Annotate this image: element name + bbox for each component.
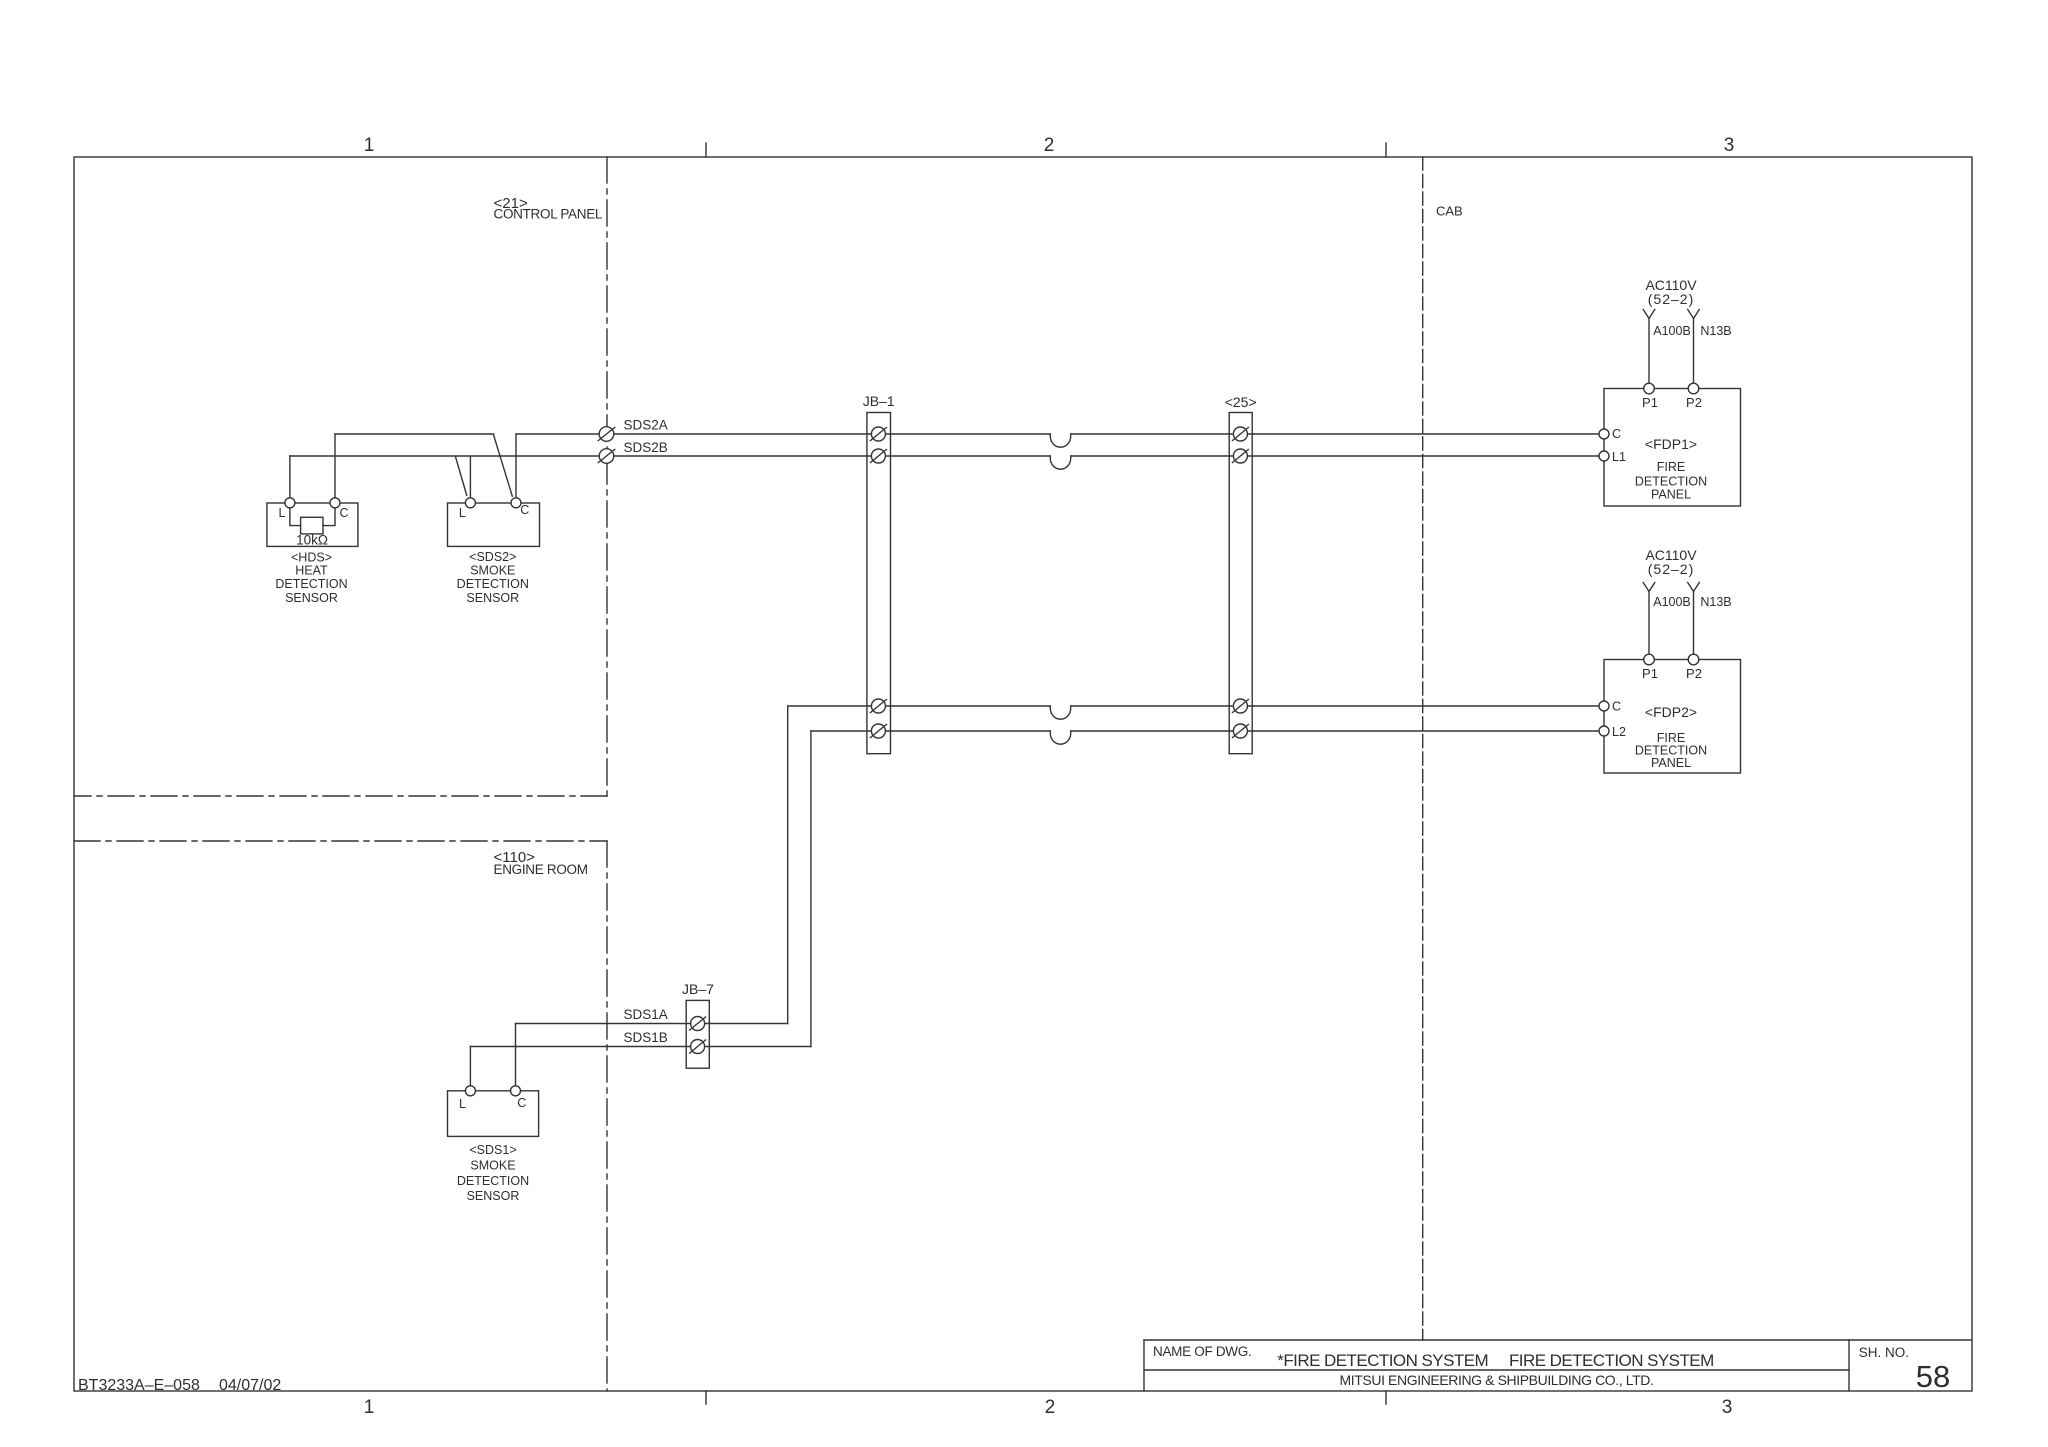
terminal SDS2A at control panel boundary — [599, 427, 614, 442]
svg-text:(52–2): (52–2) — [1648, 291, 1694, 307]
svg-text:1: 1 — [364, 135, 375, 156]
pin C FDP2 — [1599, 701, 1609, 711]
svg-text:SDS1B: SDS1B — [624, 1030, 668, 1045]
component label SDS1 — [457, 1143, 529, 1203]
component label SDS2 — [457, 550, 529, 605]
svg-text:<FDP2>: <FDP2> — [1645, 704, 1697, 720]
terminal slash JB-7 SDS1A — [689, 1017, 706, 1031]
terminal 25 lower A — [1233, 699, 1247, 713]
svg-text:1: 1 — [364, 1397, 375, 1418]
junction box 25 — [1229, 413, 1252, 754]
component label HDS — [275, 551, 347, 605]
zone label 110 engine room — [494, 849, 588, 877]
svg-text:2: 2 — [1044, 135, 1055, 156]
smoke detection sensor SDS1 box — [448, 1091, 539, 1137]
svg-text:PANEL: PANEL — [1651, 756, 1691, 770]
pin labels SDS2 — [459, 503, 529, 520]
terminal 25 lower B — [1233, 724, 1247, 738]
svg-text:(52–2): (52–2) — [1648, 561, 1694, 577]
svg-text:CAB: CAB — [1436, 204, 1463, 219]
pin L HDS — [285, 498, 295, 508]
cable loop lower A — [1050, 706, 1070, 719]
arrow V P2 FDP1 — [1688, 310, 1700, 319]
terminal slash JB-1 lower B — [870, 724, 887, 738]
svg-text:58: 58 — [1916, 1359, 1950, 1394]
pin L2 FDP2 — [1599, 726, 1609, 736]
wire SDS1B: horizontal run through JB-7 — [470, 1046, 811, 1048]
cable loop lower B — [1050, 731, 1070, 744]
svg-text:PANEL: PANEL — [1651, 488, 1691, 502]
svg-text:L: L — [279, 506, 286, 520]
terminal slash 25 lower B — [1232, 724, 1249, 738]
svg-text:10kΩ: 10kΩ — [296, 533, 328, 548]
svg-text:2: 2 — [1045, 1397, 1056, 1418]
terminal circles — [599, 427, 1247, 1054]
svg-text:P1: P1 — [1642, 395, 1658, 410]
power feed FDP1: P1 drop — [1648, 319, 1650, 384]
svg-text:<HDS>: <HDS> — [291, 551, 332, 565]
svg-text:L: L — [459, 1097, 466, 1111]
svg-text:NAME OF DWG.: NAME OF DWG. — [1153, 1344, 1251, 1359]
svg-text:L1: L1 — [1612, 450, 1626, 464]
pin L SDS2 — [465, 498, 475, 508]
terminal SDS2B at control panel boundary — [599, 449, 614, 464]
junction box JB-7 — [686, 1000, 709, 1068]
svg-text:N13B: N13B — [1700, 595, 1731, 609]
svg-text:SDS2B: SDS2B — [624, 440, 668, 455]
power feed FDP2: P1 drop — [1648, 592, 1650, 655]
sensor terminal circles — [285, 383, 1699, 1096]
terminal 25 SDS2A — [1233, 427, 1247, 441]
svg-text:DETECTION: DETECTION — [457, 577, 529, 591]
resistor 10k body — [301, 517, 323, 534]
svg-text:BT3233A–E–058: BT3233A–E–058 — [78, 1377, 200, 1394]
svg-text:DETECTION: DETECTION — [1635, 475, 1707, 489]
power labels FDP2 — [1645, 547, 1731, 609]
wire SDS2A: diagonal into SDS2 C — [494, 435, 513, 497]
wire SDS1A: vertical riser to engine room — [787, 706, 789, 1024]
svg-text:SENSOR: SENSOR — [285, 591, 338, 605]
svg-text:ENGINE ROOM: ENGINE ROOM — [494, 862, 588, 877]
heat detection sensor HDS box — [267, 503, 358, 546]
cable loop SDS2A — [1050, 434, 1070, 447]
wire SDS2A: main run to FDP1 C — [516, 433, 1050, 435]
sheet border — [74, 157, 1972, 1391]
cable loop SDS2B — [1050, 456, 1070, 469]
svg-text:N13B: N13B — [1700, 324, 1731, 338]
fire detection panel FDP2 box — [1604, 660, 1741, 774]
svg-text:<SDS2>: <SDS2> — [469, 550, 516, 564]
svg-text:<FDP1>: <FDP1> — [1645, 436, 1697, 452]
terminal slash 25 lower A — [1232, 699, 1249, 713]
power feed FDP2: P2 drop — [1693, 592, 1695, 655]
svg-text:*FIRE DETECTION SYSTEM FIR: *FIRE DETECTION SYSTEM FIRE DETECTION SY… — [1277, 1351, 1713, 1370]
pin P1 FDP2 — [1644, 654, 1655, 665]
wire SDS1B: vertical riser to engine room — [810, 731, 812, 1047]
power feed FDP1: P2 drop — [1693, 319, 1695, 384]
svg-text:DETECTION: DETECTION — [457, 1174, 529, 1188]
svg-text:SENSOR: SENSOR — [467, 1189, 520, 1203]
terminal slash JB-1 SDS2B — [870, 449, 887, 463]
wire SDS2B: diagonal into SDS2 L — [456, 457, 467, 496]
arrow V P2 FDP2 — [1688, 583, 1700, 592]
junction box JB-1 — [867, 413, 891, 754]
svg-text:MITSUI ENGINEERING & SHIPBUILD: MITSUI ENGINEERING & SHIPBUILDING CO., L… — [1340, 1372, 1654, 1388]
svg-text:C: C — [520, 503, 529, 517]
power labels FDP1 — [1645, 277, 1731, 338]
wire SDS1A run: FDP2 C line — [788, 705, 1051, 707]
terminal JB-7 SDS1A — [691, 1017, 705, 1031]
pin C SDS2 — [511, 498, 521, 508]
arrow V P1 FDP1 — [1643, 310, 1655, 319]
zone boundary: CAB (dashed) — [1422, 157, 1424, 1340]
svg-text:P2: P2 — [1686, 395, 1702, 410]
pin L1 FDP1 — [1599, 451, 1609, 461]
svg-text:L: L — [459, 506, 466, 520]
pin P2 FDP2 — [1688, 654, 1699, 665]
svg-text:JB–1: JB–1 — [863, 393, 895, 409]
wire SDS1A: SDS1 C riser — [515, 1024, 517, 1086]
svg-text:<SDS1>: <SDS1> — [469, 1143, 516, 1157]
svg-text:3: 3 — [1722, 1397, 1733, 1418]
resistor 10k leads — [290, 508, 301, 526]
arrow V P1 FDP2 — [1643, 583, 1655, 592]
svg-text:04/07/02: 04/07/02 — [219, 1377, 281, 1394]
svg-text:3: 3 — [1724, 135, 1735, 156]
FDP2 labels — [1612, 666, 1702, 739]
svg-text:A100B: A100B — [1653, 324, 1691, 338]
svg-text:JB–7: JB–7 — [682, 981, 714, 997]
terminal JB-1 lower A — [871, 699, 885, 713]
terminal slash 25 SDS2A — [1232, 427, 1249, 441]
terminal 25 SDS2B — [1233, 449, 1247, 463]
svg-text:C: C — [517, 1096, 526, 1110]
smoke detection sensor SDS2 box — [448, 503, 540, 546]
svg-text:P2: P2 — [1686, 666, 1702, 681]
svg-text:SMOKE: SMOKE — [470, 1159, 515, 1173]
svg-text:SDS1A: SDS1A — [624, 1007, 668, 1022]
pin C SDS1 — [511, 1086, 521, 1096]
terminal slash JB-1 SDS2A — [870, 427, 887, 441]
zone label 21 control panel — [494, 195, 603, 222]
pin C FDP1 — [1599, 429, 1609, 439]
terminal JB-7 SDS1B — [691, 1040, 705, 1054]
pin C HDS — [330, 498, 340, 508]
pin labels SDS1 — [459, 1096, 526, 1111]
terminal slash SDS2A boundary — [598, 427, 616, 441]
svg-text:FIRE: FIRE — [1657, 460, 1685, 474]
wire SDS1A: horizontal run through JB-7 — [516, 1023, 788, 1025]
pin P1 FDP1 — [1644, 383, 1655, 394]
wire SDS1B: SDS1 L riser — [469, 1047, 471, 1086]
svg-text:A100B: A100B — [1653, 595, 1691, 609]
svg-text:SDS2A: SDS2A — [624, 418, 668, 433]
pin L SDS1 — [465, 1086, 475, 1096]
pin labels HDS — [279, 506, 349, 548]
terminal slash 25 SDS2B — [1232, 449, 1249, 463]
terminal JB-1 SDS2B — [871, 449, 885, 463]
svg-text:C: C — [339, 506, 348, 520]
terminal slash SDS2B boundary — [598, 449, 616, 463]
wire SDS2A: HDS C riser — [334, 434, 336, 498]
terminal JB-1 lower B — [871, 724, 885, 738]
zone boundary: control panel (dash-dot) — [74, 157, 607, 1391]
wire SDS1B run: FDP2 L2 line — [811, 730, 1050, 732]
FDP1 labels — [1612, 395, 1702, 464]
svg-text:L2: L2 — [1612, 725, 1626, 739]
svg-text:P1: P1 — [1642, 666, 1658, 681]
wire SDS2B: main run HDS to FDP1 L1 — [290, 455, 1050, 457]
pin P2 FDP1 — [1688, 383, 1699, 394]
wire SDS2B: SDS2 L riser — [469, 456, 471, 498]
terminal JB-1 SDS2A — [871, 427, 885, 441]
terminal slash JB-7 SDS1B — [689, 1040, 706, 1054]
svg-text:CONTROL PANEL: CONTROL PANEL — [494, 207, 603, 222]
svg-text:C: C — [1612, 427, 1621, 441]
svg-text:SH. NO.: SH. NO. — [1859, 1345, 1909, 1360]
wire SDS2A: SDS2 C riser — [515, 434, 517, 498]
wire SDS2A: left segment HDS to SDS2 — [335, 433, 494, 435]
svg-text:DETECTION: DETECTION — [275, 577, 347, 591]
fire detection panel FDP1 box — [1604, 389, 1741, 507]
wire SDS2B: HDS L riser — [289, 456, 291, 498]
svg-text:SMOKE: SMOKE — [470, 563, 515, 577]
svg-text:HEAT: HEAT — [295, 564, 328, 578]
title block — [1144, 1339, 1972, 1341]
svg-text:C: C — [1612, 700, 1621, 714]
svg-text:SENSOR: SENSOR — [466, 591, 519, 605]
terminal slash JB-1 lower A — [870, 699, 887, 713]
svg-text:<25>: <25> — [1225, 394, 1257, 410]
